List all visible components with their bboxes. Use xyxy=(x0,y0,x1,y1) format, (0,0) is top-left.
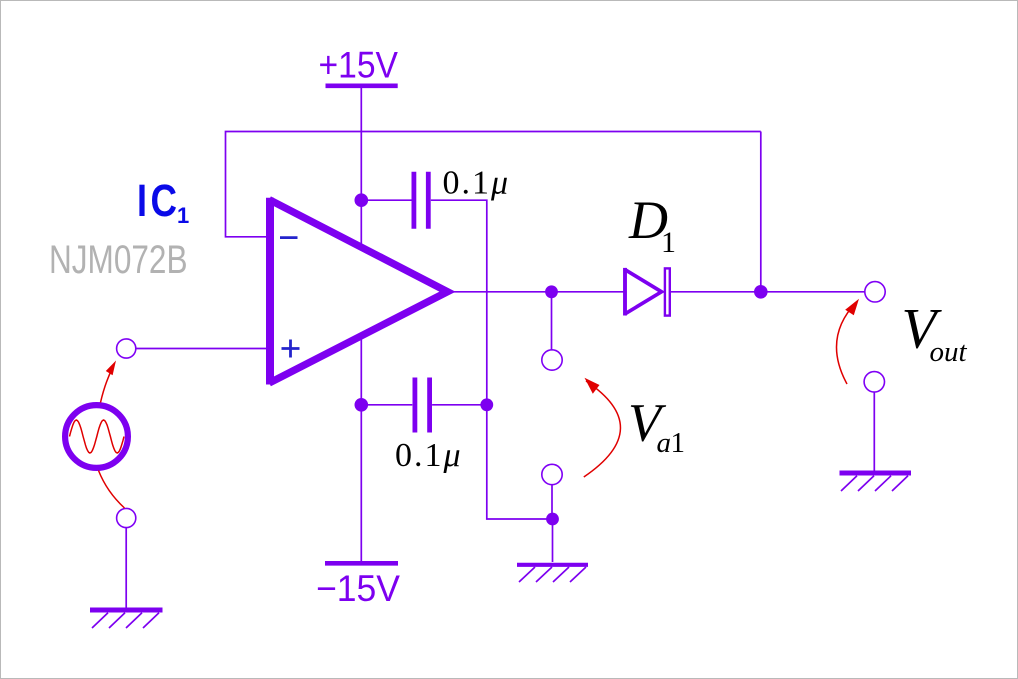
svg-text:I: I xyxy=(137,175,147,226)
svg-text:out: out xyxy=(930,336,968,368)
svg-text:−15V: −15V xyxy=(316,568,400,609)
svg-text:NJM072B: NJM072B xyxy=(49,238,188,282)
svg-text:0.1μ: 0.1μ xyxy=(443,164,511,201)
svg-text:1: 1 xyxy=(671,427,686,459)
svg-text:1: 1 xyxy=(661,226,676,259)
svg-text:C: C xyxy=(151,175,178,226)
svg-text:0.1μ: 0.1μ xyxy=(395,437,463,474)
svg-text:+15V: +15V xyxy=(319,44,399,85)
svg-text:a: a xyxy=(657,427,672,459)
svg-text:1: 1 xyxy=(177,203,189,228)
